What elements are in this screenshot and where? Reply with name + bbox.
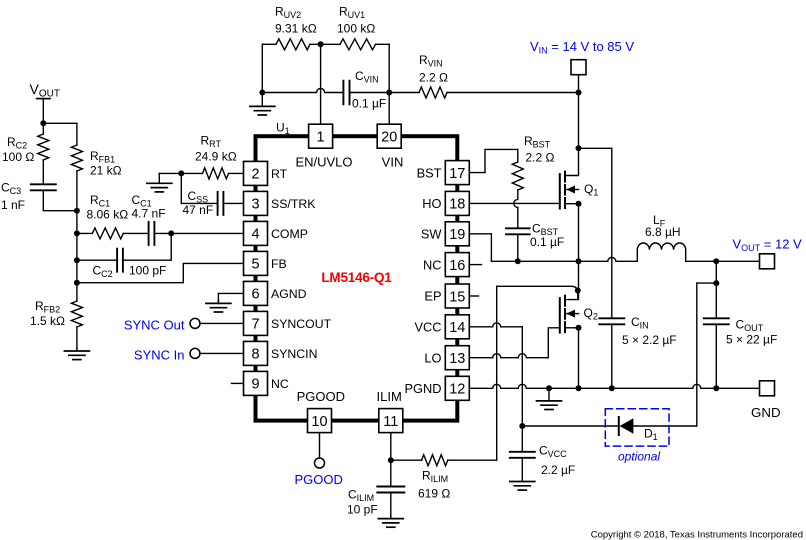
svg-text:20: 20	[381, 130, 397, 146]
capacitor CBST	[506, 227, 530, 229]
svg-text:2.2 Ω: 2.2 Ω	[419, 71, 448, 85]
wire CVIN right to VIN node	[350, 92, 420, 94]
svg-text:9.31 kΩ: 9.31 kΩ	[275, 22, 317, 36]
capacitor COUT	[704, 317, 729, 319]
transistor Q2 gate bar	[559, 298, 561, 333]
wire LF to VOUT terminal	[686, 260, 760, 262]
wire VOUT branch to D1 vertical	[697, 282, 717, 284]
wire SYNC In to pin8	[200, 352, 244, 354]
svg-text:RC2: RC2	[7, 135, 27, 151]
wire VOUT down through COUT to PGND rail	[715, 261, 717, 318]
ground below CVCC	[521, 458, 523, 482]
terminal VIN input square	[571, 60, 586, 75]
capacitor CC1	[148, 222, 150, 245]
node PGND at Q2 source	[576, 385, 582, 391]
wire VOUT node to RFB1 top	[43, 122, 77, 124]
ground below RUV2 leg	[261, 93, 263, 107]
wire RUV2 left leg down to ground node	[261, 44, 263, 92]
svg-text:100 pF: 100 pF	[129, 263, 166, 277]
resistor RFB1	[76, 123, 78, 145]
wire VIN terminal down to Q1 drain node	[578, 75, 580, 149]
ground at RRT	[158, 173, 160, 183]
pin 8 box	[244, 341, 268, 365]
svg-text:0.1 µF: 0.1 µF	[530, 235, 564, 249]
svg-text:ILIM: ILIM	[377, 389, 402, 404]
svg-text:Q2: Q2	[584, 306, 598, 322]
node PGND at CIN	[609, 385, 615, 391]
node FB branch	[74, 280, 80, 286]
wire SW rail (hops CIN vertical)	[491, 257, 637, 261]
wire CSS left lead	[181, 202, 217, 204]
svg-text:6.8 µH: 6.8 µH	[645, 225, 681, 239]
svg-text:2.2 Ω: 2.2 Ω	[526, 151, 555, 165]
svg-text:1.5 kΩ: 1.5 kΩ	[30, 314, 65, 328]
node VCC at D1	[519, 423, 525, 429]
svg-text:RBST: RBST	[524, 134, 551, 150]
svg-text:100 kΩ: 100 kΩ	[337, 22, 375, 36]
pin 13 box	[445, 346, 469, 370]
wire CIN vertical upper	[611, 148, 613, 318]
svg-text:18: 18	[449, 197, 465, 213]
svg-text:LO: LO	[424, 350, 441, 365]
node CVIN right / pin20	[386, 90, 392, 96]
pin 3 box	[244, 191, 268, 215]
svg-text:2: 2	[251, 167, 259, 183]
transistor Q2 drain lead	[565, 292, 578, 300]
capacitor CSS	[217, 192, 219, 215]
svg-text:RRT: RRT	[201, 134, 222, 150]
svg-text:5 × 2.2 µF: 5 × 2.2 µF	[622, 333, 677, 347]
svg-text:CILIM: CILIM	[348, 488, 374, 504]
capacitor CIN	[599, 317, 624, 319]
wire pin9 NC stub	[232, 382, 244, 384]
pin 6 box	[244, 281, 268, 305]
resistor RFB2	[71, 301, 82, 327]
svg-text:CIN: CIN	[631, 315, 649, 331]
wire pin12 PGND rail (hops RILIM, VCC, D1 verticals)	[469, 384, 759, 388]
svg-text:RFB1: RFB1	[90, 149, 115, 165]
svg-text:CC2: CC2	[93, 263, 113, 279]
svg-text:11: 11	[383, 414, 398, 430]
svg-text:COMP: COMP	[271, 227, 308, 241]
wire pin15 EP stub	[469, 295, 478, 297]
node VIN at CIN branch	[576, 145, 582, 151]
pin 14 box	[445, 315, 469, 339]
node divider midpoint	[318, 41, 324, 47]
svg-text:6: 6	[251, 287, 259, 303]
svg-text:19: 19	[449, 227, 465, 243]
svg-text:9: 9	[251, 377, 259, 393]
wire pin16 NC stub	[469, 264, 481, 266]
pin 4 box	[244, 221, 268, 245]
svg-text:AGND: AGND	[271, 287, 307, 301]
svg-text:SYNCIN: SYNCIN	[271, 347, 317, 361]
resistor RC2	[42, 123, 44, 134]
terminal SYNC Out circle	[190, 318, 200, 328]
svg-text:5 × 22 µF: 5 × 22 µF	[726, 333, 777, 347]
wire pin19 SW to SW rail	[469, 234, 491, 261]
resistor RRT	[203, 168, 229, 179]
pin 2 box	[244, 161, 268, 185]
pin 1 box	[309, 124, 333, 148]
wire pin17 BST to RBST top	[469, 149, 518, 172]
svg-text:Copyright © 2018, Texas Instru: Copyright © 2018, Texas Instruments Inco…	[591, 530, 803, 540]
svg-text:SYNC Out: SYNC Out	[124, 317, 185, 332]
wire CSS to pin3	[223, 202, 243, 204]
node CC2 branch	[74, 257, 80, 263]
node ILIM	[388, 457, 394, 463]
terminal PGOOD circle	[315, 458, 325, 468]
svg-text:NC: NC	[423, 257, 441, 272]
capacitor CC3	[31, 183, 56, 185]
node VIN at RVIN	[576, 90, 582, 96]
wire RUV1 right leg down to CVIN node	[388, 44, 390, 92]
svg-text:PGOOD: PGOOD	[295, 472, 343, 487]
node COMP at CC2	[168, 230, 174, 236]
svg-text:RUV1: RUV1	[339, 5, 365, 21]
pin 10 box	[308, 409, 332, 433]
svg-text:12: 12	[449, 382, 465, 398]
pin 19 box	[445, 222, 469, 246]
ground below RFB2	[76, 348, 78, 351]
transistor Q1 source lead	[565, 203, 579, 205]
capacitor CILIM	[377, 486, 404, 488]
pin 15 box	[445, 284, 469, 308]
svg-text:VCC: VCC	[414, 320, 441, 335]
svg-text:SYNC In: SYNC In	[134, 347, 185, 362]
node VOUT	[713, 258, 719, 264]
svg-text:U1: U1	[276, 121, 290, 137]
node Q2 source	[576, 325, 582, 331]
svg-text:1: 1	[317, 130, 325, 146]
svg-text:RVIN: RVIN	[419, 53, 443, 69]
wire CBST bottom to SW rail	[517, 234, 519, 261]
node RT/CSS junction	[178, 170, 184, 176]
wire pin11 ILIM down	[390, 433, 392, 461]
svg-text:VOUT = 12 V: VOUT = 12 V	[733, 237, 803, 254]
svg-text:1 nF: 1 nF	[1, 198, 25, 212]
resistor RILIM	[422, 455, 448, 466]
ground at AGND	[217, 300, 219, 303]
svg-text:RT: RT	[271, 167, 288, 181]
svg-text:17: 17	[449, 166, 465, 182]
node VOUT divider top	[40, 120, 46, 126]
wire ILIM to CILIM	[390, 460, 392, 486]
wire RILIM to sense vertical	[448, 459, 497, 461]
pin 9 box	[244, 371, 268, 395]
node COMP branch	[74, 230, 80, 236]
svg-text:PGOOD: PGOOD	[297, 389, 345, 404]
pin 12 box	[445, 376, 469, 400]
svg-text:RILIM: RILIM	[422, 469, 448, 485]
svg-text:10: 10	[311, 414, 327, 430]
svg-text:47 nF: 47 nF	[183, 203, 214, 217]
terminal VOUT square	[760, 254, 775, 269]
wire FB to pin5	[77, 263, 244, 282]
svg-text:SS/TRK: SS/TRK	[271, 197, 316, 211]
resistor RVIN	[419, 87, 447, 98]
resistor RBST	[517, 149, 519, 162]
pin 20 box	[377, 124, 401, 148]
wire FB vertical	[76, 211, 78, 301]
wire CC2 branch	[77, 259, 117, 261]
diode D1	[620, 418, 634, 434]
wire D1 cathode to VCC node	[522, 425, 619, 427]
svg-text:D1: D1	[644, 427, 658, 443]
wire RBST to CBST (hops HO wire)	[514, 199, 518, 207]
wire pin18 HO to Q1 gate	[469, 202, 560, 204]
node VOUT at D1 branch	[713, 280, 719, 286]
transistor Q1 drain lead	[565, 148, 579, 175]
svg-text:VOUT: VOUT	[30, 81, 60, 100]
svg-text:2.2 µF: 2.2 µF	[541, 463, 575, 477]
svg-text:RC1: RC1	[90, 193, 110, 209]
wire pin1 EN/UVLO lead from divider midpoint	[320, 44, 322, 126]
wire RVIN to VIN vertical	[447, 92, 579, 94]
capacitor CVCC	[510, 451, 535, 453]
wire CC1 to pin4 COMP	[154, 232, 243, 234]
terminal SYNC In circle	[190, 348, 200, 358]
resistor RUV1	[340, 39, 376, 50]
node Q2 drain / SW sense	[575, 288, 581, 294]
svg-text:5: 5	[251, 257, 259, 273]
pin 18 box	[445, 191, 469, 215]
wire pin14 VCC (hops RILIM vertical)	[469, 323, 522, 327]
pin 11 box	[379, 409, 403, 433]
wire ILIM to RILIM	[391, 459, 422, 461]
svg-text:RFB2: RFB2	[35, 299, 60, 315]
wire D1 anode lead	[633, 425, 696, 427]
svg-text:Q1: Q1	[584, 182, 598, 198]
wire Q2 source to PGND rail	[578, 328, 580, 389]
wire EN/UVLO divider top rail y=44	[262, 43, 276, 45]
svg-text:optional: optional	[618, 450, 660, 464]
svg-text:7: 7	[251, 317, 259, 333]
svg-text:13: 13	[449, 351, 465, 367]
svg-text:SW: SW	[421, 227, 443, 242]
wire ground to CVIN left (hops pin1 lead)	[262, 89, 343, 93]
wire RILIM sense vertical	[496, 286, 498, 460]
node SW at Q1 source vertical	[576, 258, 582, 264]
svg-text:21 kΩ: 21 kΩ	[90, 164, 122, 178]
node RFB1 bottom	[74, 208, 80, 214]
wire VCC vertical down to CVCC/D1 node	[521, 327, 523, 452]
svg-text:8: 8	[251, 347, 259, 363]
transistor Q1 body lead and arrow	[565, 189, 579, 191]
wire RT node down to CSS	[180, 173, 182, 203]
wire COUT bottom to PGND rail	[715, 324, 717, 388]
svg-text:COUT: COUT	[736, 318, 764, 334]
wire pin6 AGND to ground	[218, 293, 243, 303]
svg-text:14: 14	[449, 320, 465, 336]
svg-text:VIN = 14 V to 85 V: VIN = 14 V to 85 V	[530, 39, 634, 56]
node Q1 source	[576, 201, 582, 207]
svg-text:SYNCOUT: SYNCOUT	[271, 317, 332, 331]
node ground/CVIN left	[259, 90, 265, 96]
wire VIN node to CIN top	[579, 147, 612, 149]
wire Q1 source down to SW rail and Q2 drain	[578, 204, 580, 300]
svg-text:NC: NC	[271, 377, 289, 391]
node PGND at ground symbol	[546, 385, 552, 391]
resistor RUV2	[276, 39, 310, 50]
svg-text:GND: GND	[751, 405, 781, 420]
capacitor CVIN	[342, 81, 344, 105]
svg-text:4.7 nF: 4.7 nF	[132, 207, 166, 221]
svg-text:RUV2: RUV2	[275, 5, 301, 21]
svg-text:619 Ω: 619 Ω	[418, 487, 450, 501]
svg-text:EP: EP	[424, 289, 441, 304]
svg-text:CVIN: CVIN	[355, 69, 379, 85]
svg-text:HO: HO	[422, 196, 441, 211]
svg-text:EN/UVLO: EN/UVLO	[295, 154, 352, 169]
wire pin20 VIN lead	[388, 93, 390, 127]
transistor Q1 channel segments	[564, 172, 566, 182]
wire RILIM sense line to SW node	[497, 286, 578, 293]
svg-text:CC3: CC3	[1, 181, 21, 197]
node PGND at COUT	[713, 385, 719, 391]
resistor RC1	[77, 232, 92, 234]
transistor Q1 gate bar	[559, 174, 561, 209]
svg-text:10 pF: 10 pF	[347, 503, 378, 517]
svg-text:LM5146-Q1: LM5146-Q1	[321, 270, 392, 285]
ground on PGND rail	[548, 388, 550, 401]
capacitor CC2	[116, 249, 118, 272]
VOUT rail tick	[37, 98, 50, 100]
svg-text:100 Ω: 100 Ω	[2, 150, 34, 164]
transistor Q2 source lead	[565, 327, 579, 329]
dashed optional box around D1	[605, 409, 669, 446]
wire pin13 LO to Q2 gate (hops RILIM and VCC verticals)	[469, 354, 548, 358]
inductor LF	[637, 243, 685, 261]
wire CIN bottom to PGND rail	[611, 324, 613, 388]
svg-text:16: 16	[449, 258, 465, 274]
svg-text:FB: FB	[271, 257, 287, 271]
wire SYNC Out to pin7	[200, 322, 244, 324]
wire RRT to ground branch	[159, 172, 202, 174]
wire CC2 right elbow up to COMP	[123, 233, 171, 260]
wire pin2 RT left	[229, 172, 244, 174]
pin 16 box	[445, 253, 469, 277]
svg-text:24.9 kΩ: 24.9 kΩ	[195, 150, 237, 164]
svg-text:BST: BST	[417, 165, 442, 180]
svg-text:4: 4	[251, 227, 259, 243]
node SW at CBST	[515, 258, 521, 264]
wire pin10 PGOOD down	[319, 433, 321, 458]
svg-text:15: 15	[449, 289, 465, 305]
op-amp/IC U1 LM5146-Q1 body	[256, 136, 458, 420]
ground below CILIM	[390, 493, 392, 519]
pin 7 box	[244, 311, 268, 335]
pin 17 box	[445, 161, 469, 185]
svg-text:0.1 µF: 0.1 µF	[352, 97, 386, 111]
svg-text:8.06 kΩ: 8.06 kΩ	[87, 208, 129, 222]
svg-text:VIN: VIN	[382, 154, 404, 169]
svg-text:3: 3	[251, 197, 259, 213]
terminal GND square	[760, 381, 775, 396]
svg-text:CVCC: CVCC	[539, 444, 567, 460]
svg-text:PGND: PGND	[405, 381, 442, 396]
wire D1 vertical	[696, 283, 698, 426]
transistor Q2 body lead and arrow	[565, 313, 579, 315]
transistor Q2 channel segments	[564, 296, 566, 306]
pin 5 box	[244, 251, 268, 275]
wire CC3 bottom elbow	[43, 190, 77, 210]
